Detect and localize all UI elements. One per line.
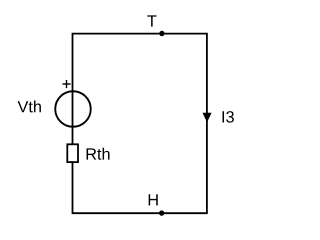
wire top (node T rail) (72, 33, 208, 35)
label T (147, 15, 156, 26)
node T junction dot (159, 31, 164, 36)
wire left lower (resistor to bottom rail) (72, 162, 74, 213)
label I3 (223, 111, 234, 123)
resistor Rth (body) (67, 144, 78, 162)
label H (149, 194, 158, 205)
polarity plus sign (63, 80, 71, 88)
voltage source Vth (circle) (55, 91, 91, 127)
wire bottom (node H rail) (72, 212, 208, 214)
wire left upper (top rail through source to resistor) (72, 34, 74, 145)
node H junction dot (159, 210, 164, 215)
wire right (206, 34, 208, 214)
current arrow I3 (203, 113, 212, 123)
label Vth (18, 100, 41, 112)
label Rth (87, 148, 110, 160)
